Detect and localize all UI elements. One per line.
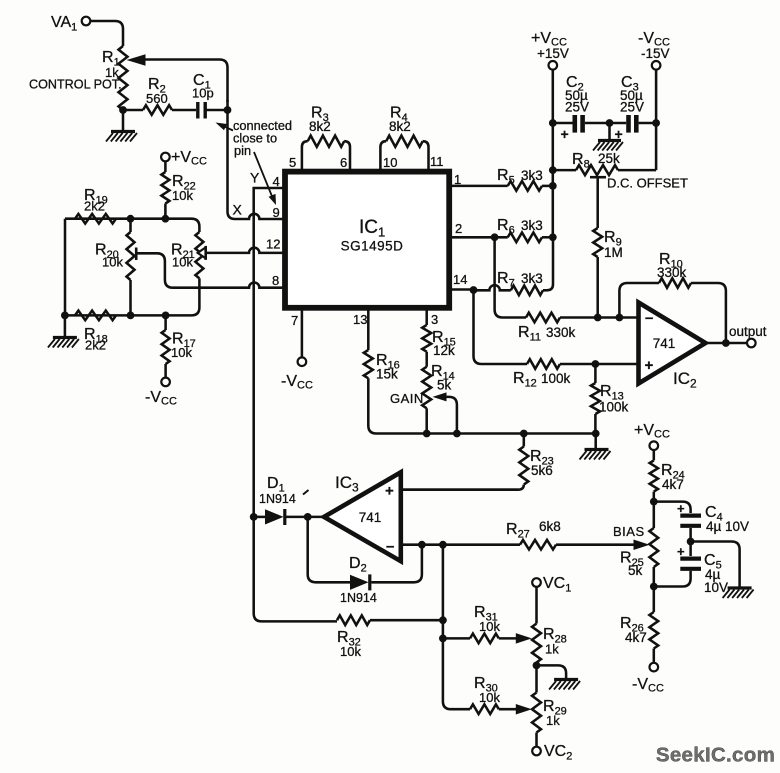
wiper arrow of R14 (GAIN) (390, 391, 457, 434)
wire (R20 wiper to pin 8) (136, 253, 193, 287)
wire (R21 wiper to pin 12) (207, 248, 285, 253)
node (650, 583, 658, 591)
pin label 5 (289, 155, 296, 170)
wire (R21 bottom to bottom bus) (65, 278, 199, 315)
svg-text:–: – (386, 538, 394, 555)
diode D2 1N914 (340, 555, 377, 605)
svg-text:10p: 10p (192, 86, 214, 101)
resistor R7 (474, 237, 553, 295)
wire (pin 14) (451, 288, 474, 291)
svg-text:10k: 10k (172, 255, 193, 270)
node (C1 / X line) (224, 106, 232, 114)
label R12 100k (513, 370, 571, 390)
arrow (R30 wiper of R29) (516, 704, 532, 715)
svg-text:5: 5 (289, 155, 296, 170)
node (439, 541, 447, 549)
node (423, 430, 431, 438)
label R11 330k (518, 324, 576, 344)
pin label 8 (272, 273, 279, 288)
resistor R5 (451, 167, 553, 191)
node (594, 314, 602, 322)
pin label 10 (383, 155, 397, 170)
node (453, 430, 461, 438)
svg-text:D.C. OFFSET: D.C. OFFSET (607, 176, 688, 191)
node (162, 215, 170, 223)
svg-text:5k6: 5k6 (531, 463, 553, 478)
svg-text:4k7: 4k7 (625, 630, 647, 645)
wire (172, 109, 196, 112)
node (R1 bottom junction) (119, 106, 127, 114)
IC U1 SG1495D (285, 172, 449, 308)
svg-text:7: 7 (291, 313, 298, 328)
terminal VC2 (532, 743, 572, 763)
svg-text:2k2: 2k2 (84, 199, 105, 214)
pin label 4 (273, 174, 280, 189)
svg-text:pin: pin (234, 143, 251, 158)
pin label 11 (430, 154, 444, 169)
resistor R14 (gain pot) (422, 352, 455, 434)
resistor R12 (527, 359, 638, 369)
terminal +VCC (rail) (531, 30, 569, 70)
svg-text:SeekIC.com: SeekIC.com (656, 744, 775, 767)
svg-text:1N914: 1N914 (340, 591, 377, 605)
svg-text:25V: 25V (565, 99, 589, 114)
svg-text:15k: 15k (376, 367, 398, 382)
pin label 9 (273, 205, 280, 220)
diode D1 1N914 (259, 475, 296, 525)
svg-text:25V: 25V (620, 99, 644, 114)
capacitor C1 (192, 72, 214, 119)
svg-text:5k: 5k (628, 563, 643, 578)
resistor R25 (bias pot) (649, 502, 658, 612)
wire (286, 516, 324, 519)
svg-text:11: 11 (430, 154, 444, 169)
svg-text:2: 2 (455, 221, 462, 236)
svg-text:14: 14 (453, 272, 467, 287)
resistor R17 (162, 315, 196, 377)
wiper of R20 (135, 248, 138, 261)
resistor R3 (302, 105, 350, 173)
node (439, 616, 447, 624)
pin label 13 (353, 312, 367, 327)
pin label 6 (340, 155, 347, 170)
label R25 5k (620, 550, 644, 579)
terminal output (729, 324, 767, 347)
node (616, 314, 624, 322)
wire (91, 21, 124, 46)
svg-text:330k: 330k (546, 325, 576, 340)
node Y (250, 170, 260, 186)
svg-text:8: 8 (272, 273, 279, 288)
terminal -VCC (R26) (632, 663, 664, 695)
wire (pin 2 down to R11) (495, 237, 526, 317)
node (D1 anode) (250, 513, 258, 521)
svg-text:output: output (729, 324, 767, 339)
wire (207, 109, 228, 112)
op-amp IC2 741 (639, 303, 706, 391)
svg-text:8k2: 8k2 (389, 119, 411, 134)
node X (233, 202, 243, 218)
svg-text:+15V: +15V (537, 46, 569, 61)
resistor R13 (591, 364, 629, 434)
svg-text:3k3: 3k3 (521, 168, 543, 183)
svg-text:SG1495D: SG1495D (341, 239, 404, 254)
node (549, 233, 557, 241)
resistor R23 (402, 434, 554, 490)
wire (-VCC down to R8) (655, 70, 658, 171)
pin 7 to -VCC (281, 310, 313, 392)
svg-text:2k2: 2k2 (85, 338, 106, 353)
terminal -VCC (R17) (145, 378, 177, 408)
svg-text:560: 560 (146, 91, 168, 106)
pin label 7 (291, 313, 298, 328)
node (606, 119, 614, 127)
resistor R24 (650, 450, 658, 502)
svg-text:12: 12 (266, 237, 280, 252)
wire (IC3 - input) (402, 543, 521, 546)
wire (Y net: pin 4 down to R32) (254, 188, 337, 621)
svg-text:6: 6 (340, 155, 347, 170)
capacitor C2 (561, 74, 590, 142)
resistor R27 (506, 519, 637, 550)
svg-text:+: + (677, 501, 685, 516)
svg-text:9: 9 (273, 205, 280, 220)
wiper arrow of R21 (198, 246, 206, 260)
node (549, 166, 557, 174)
svg-text:1k: 1k (545, 642, 559, 657)
svg-text:8k2: 8k2 (309, 119, 331, 134)
svg-text:25k: 25k (598, 151, 620, 166)
svg-text:4k7: 4k7 (662, 477, 684, 492)
svg-text:+: + (677, 544, 685, 559)
terminal +VCC (R24) (634, 422, 670, 450)
resistor R4 (380, 105, 428, 173)
resistor R1 (control pot) (29, 46, 128, 110)
wire (to C4) (654, 502, 691, 513)
ground (48, 315, 79, 347)
terminal VA1 (51, 14, 90, 34)
node (650, 498, 658, 506)
resistor R2 (143, 76, 172, 115)
pin label 1 (454, 172, 461, 187)
pin label 14 (453, 272, 467, 287)
svg-text:10: 10 (383, 155, 397, 170)
resistor R8 (pot) (553, 151, 656, 175)
svg-text:100k: 100k (599, 400, 629, 415)
svg-text:Y: Y (250, 170, 260, 186)
resistor R30 (470, 675, 516, 714)
svg-text:–: – (645, 310, 653, 327)
svg-text:+: + (385, 483, 394, 500)
wire (gain bus) (384, 432, 596, 435)
svg-text:6k8: 6k8 (539, 519, 561, 534)
svg-text:GAIN: GAIN (390, 391, 424, 406)
svg-text:741: 741 (653, 336, 676, 351)
wiper arrow of R1 (127, 54, 146, 66)
node (687, 538, 695, 546)
wire (IC3 + input to R23) (402, 488, 519, 491)
ground (R28) (537, 665, 581, 689)
svg-text:10k: 10k (340, 644, 361, 659)
wire (R1 wiper to X line) (144, 60, 228, 103)
node (549, 119, 557, 127)
node (127, 312, 135, 320)
svg-text:3: 3 (431, 312, 438, 327)
wire (D2 branch down) (308, 517, 350, 582)
terminal -VCC (rail) (638, 30, 670, 70)
node (470, 286, 478, 294)
svg-text:+: + (615, 126, 623, 142)
svg-text:10k: 10k (479, 690, 500, 705)
terminal VC1 (532, 575, 571, 595)
svg-text:10V: 10V (704, 580, 728, 595)
wire (D2 to minus input) (371, 545, 422, 583)
svg-text:10k: 10k (102, 255, 123, 270)
node (652, 119, 660, 127)
resistor R9 (593, 228, 623, 318)
node (127, 215, 135, 223)
ground (C2/C3) (593, 123, 623, 151)
pin label 12 (266, 237, 280, 252)
wire (639, 122, 657, 125)
note 'connected close to pin' (216, 118, 293, 205)
resistor R29 (532, 693, 567, 747)
wire (+VCC rail) (552, 70, 555, 238)
svg-text:+: + (561, 126, 569, 142)
node (592, 430, 600, 438)
wire (C4/C5 mid to ground) (691, 542, 754, 599)
resistor R11 (526, 313, 638, 323)
pin label 2 (455, 221, 462, 236)
wire (689, 528, 692, 556)
svg-text:5k: 5k (437, 378, 452, 393)
svg-text:10k: 10k (479, 619, 500, 634)
pin label 3 (431, 312, 438, 327)
label BIAS + arrow (613, 524, 650, 550)
capacitor C4 (677, 501, 749, 534)
terminal +VCC (R22) (161, 149, 207, 168)
node (IC3 output node) (304, 513, 312, 521)
op-amp IC3 741 (points left) (324, 472, 401, 561)
node (520, 430, 528, 438)
svg-text:100k: 100k (541, 371, 571, 386)
svg-text:4: 4 (273, 174, 280, 189)
node (722, 339, 730, 347)
node (61, 312, 69, 320)
wire (minus node down) (443, 545, 470, 710)
svg-text:330k: 330k (657, 265, 687, 280)
resistor R32 (337, 615, 443, 659)
watermark SeekIC.com (656, 744, 775, 767)
wire (123, 109, 143, 112)
resistor R22 (161, 162, 195, 219)
svg-text:BIAS: BIAS (613, 524, 645, 539)
wiper of R8 (590, 177, 606, 228)
ground (106, 112, 137, 142)
wire (left rail) (64, 219, 67, 316)
wire (585, 122, 626, 125)
capacitor C5 (677, 544, 728, 595)
wire (553, 122, 573, 125)
svg-text:13: 13 (353, 312, 367, 327)
arrow (R31 wiper of R28) (516, 633, 532, 644)
wire (pin 14 down to R12) (474, 290, 528, 364)
resistor R19 (75, 187, 116, 224)
svg-text:3k3: 3k3 (521, 218, 543, 233)
node (162, 312, 170, 320)
svg-text:1M: 1M (604, 245, 623, 260)
wire (X net to pin 9) (228, 100, 285, 219)
resistor R6 (451, 217, 553, 242)
resistor R18 (75, 311, 116, 353)
node (491, 233, 499, 241)
node (533, 662, 541, 670)
node (418, 541, 426, 549)
node (439, 635, 447, 643)
svg-text:X: X (233, 202, 243, 218)
svg-text:12k: 12k (433, 343, 455, 358)
resistor R10 (feedback) (619, 251, 726, 343)
wire (pin 8) (193, 283, 284, 288)
svg-text:1k: 1k (546, 713, 560, 728)
svg-text:10k: 10k (172, 188, 193, 203)
resistor R31 (443, 604, 516, 643)
ground (bus) (580, 434, 611, 460)
stray mark (303, 490, 309, 495)
resistor R16 (pin 13) (364, 310, 400, 434)
svg-text:3k3: 3k3 (521, 271, 543, 286)
node (549, 182, 557, 190)
wire (254, 516, 265, 519)
wire (top bus) (65, 219, 199, 232)
wire (C5 to R25 bottom) (654, 571, 691, 587)
svg-text:CONTROL POT.: CONTROL POT. (29, 78, 122, 92)
svg-text:+: + (645, 357, 654, 374)
node (592, 360, 600, 368)
resistor R15 (pin 3) (422, 310, 456, 358)
label D.C. OFFSET (607, 176, 688, 191)
svg-text:-15V: -15V (641, 46, 670, 61)
resistor R26 (620, 612, 658, 663)
resistor R20 (95, 219, 135, 316)
resistor R21 (171, 232, 203, 278)
svg-text:10k: 10k (171, 345, 192, 360)
svg-text:1N914: 1N914 (259, 492, 296, 506)
label R24 4k7 (661, 462, 685, 492)
capacitor C3 (615, 74, 645, 142)
svg-text:4µ 10V: 4µ 10V (706, 519, 749, 534)
resistor R28 (532, 587, 567, 693)
wire (IC2 output) (706, 342, 748, 345)
svg-text:741: 741 (359, 510, 382, 525)
